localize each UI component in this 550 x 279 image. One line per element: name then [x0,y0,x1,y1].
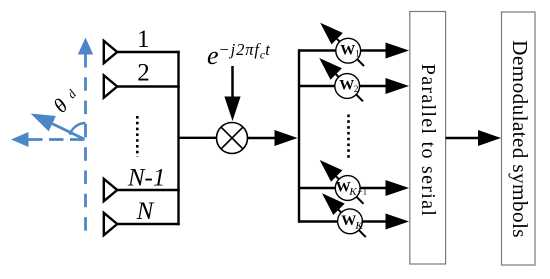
weights bus [298,49,300,222]
boresight dashed horizontal line [28,138,86,141]
arrowhead branch 2 into P/S [386,78,410,94]
wire bus to mixer [179,137,218,139]
weight control line WK [335,206,366,237]
weight control arrowhead WK-1 [320,160,343,182]
svg-text:K: K [348,186,357,198]
wire box1 to box2 [446,137,481,140]
weights dots [347,115,350,159]
arrowhead mixer output [275,130,298,146]
arrowhead branch 1 into P/S [386,43,410,59]
multiplier WK [338,209,363,234]
angle arc theta_d [70,123,86,135]
array axis dashed vertical line [84,54,87,68]
svg-text:W: W [339,78,354,94]
multiplier W2 [335,74,360,99]
wire branch 2 [299,85,388,88]
multiplier WK-1 [335,176,360,201]
antenna N [104,213,117,235]
antenna 1 [104,41,117,63]
wire branch K-1 [299,187,388,190]
svg-text:2: 2 [354,84,359,94]
svg-text:W: W [341,213,356,229]
antenna bus [177,51,179,225]
svg-text:−1: −1 [358,186,368,196]
svg-text:Demodulated symbols: Demodulated symbols [508,40,532,238]
arrowhead branch K-1 into P/S [386,180,410,196]
antenna dots [136,116,139,157]
svg-text:Parallel to serial: Parallel to serial [417,64,439,217]
weight control line W1 [333,35,364,66]
svg-text:K: K [354,220,363,232]
demodulated symbols box [502,12,536,265]
wire LO arrow down into mixer [231,66,234,99]
wire mixer output [248,137,278,140]
arrowhead LO into mixer [224,97,240,122]
parallel to serial box [410,12,446,265]
weight control arrowhead W1 [320,23,343,45]
wire branch 1 [299,49,388,52]
weight control arrowhead W2 [319,58,342,80]
arrowhead into demodulator box [478,130,501,146]
boresight left arrowhead [11,132,29,147]
svg-text:N-1: N-1 [127,165,166,192]
weight control line WK-1 [332,173,363,204]
antenna N-1 [104,179,117,201]
antenna 2 [104,75,117,97]
svg-text:e−j2πfct: e−j2πfct [207,40,270,70]
weight control line W2 [332,70,363,101]
arrowhead branch K into P/S [386,214,410,230]
array axis up arrowhead [78,38,93,55]
mixer cross [221,127,243,149]
incident wave arrow [52,124,84,140]
wire antenna N [117,223,180,225]
wire antenna 1 [117,51,180,53]
weight control arrowhead WK [322,193,345,215]
wire antenna N-1 [117,189,180,191]
svg-text:2: 2 [137,60,150,87]
wire antenna 2 [117,85,180,87]
multiplier W1 [336,38,361,63]
svg-text:1: 1 [355,49,360,59]
mixer circle [217,123,248,154]
svg-text:W: W [340,43,355,59]
wire branch K [299,220,388,223]
svg-text:N: N [136,198,155,225]
svg-text:θd: θd [50,84,83,117]
svg-text:1: 1 [137,26,150,53]
